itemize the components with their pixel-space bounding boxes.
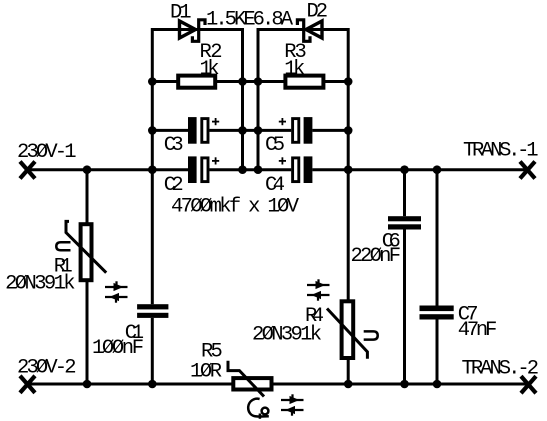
svg-text:C3: C3	[164, 134, 184, 157]
svg-text:23ØV-2: 23ØV-2	[17, 357, 77, 380]
svg-text:2ØN391k: 2ØN391k	[5, 272, 76, 295]
svg-text:D2: D2	[307, 1, 329, 24]
svg-text:TRANS.-1: TRANS.-1	[463, 140, 539, 163]
svg-text:C2: C2	[164, 174, 184, 197]
svg-text:D1: D1	[170, 2, 192, 25]
svg-text:2ØN391k: 2ØN391k	[252, 324, 322, 347]
svg-text:47nF: 47nF	[458, 319, 498, 342]
svg-text:C5: C5	[265, 134, 285, 157]
svg-text:C4: C4	[265, 174, 285, 197]
svg-text:1k: 1k	[200, 58, 220, 81]
svg-text:23ØV-1: 23ØV-1	[17, 141, 77, 164]
svg-text:22ØnF: 22ØnF	[351, 245, 402, 268]
svg-text:1ØØnF: 1ØØnF	[92, 337, 144, 360]
svg-text:1.5KE6.8A: 1.5KE6.8A	[206, 9, 294, 32]
svg-text:TRANS.-2: TRANS.-2	[462, 358, 540, 381]
svg-text:1k: 1k	[284, 58, 305, 81]
svg-text:1ØR: 1ØR	[190, 361, 222, 384]
svg-text:47ØØmkf x 1ØV: 47ØØmkf x 1ØV	[171, 196, 300, 219]
